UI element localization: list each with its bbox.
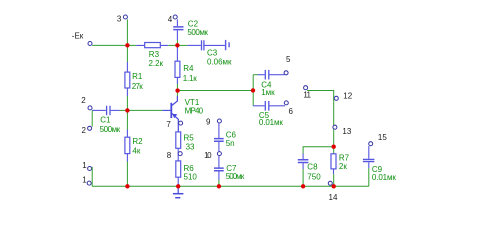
wire rail to C3: [177, 44, 187, 46]
svg-text:10: 10: [204, 151, 212, 160]
node 14: [328, 181, 338, 202]
svg-text:33: 33: [186, 142, 195, 151]
svg-text:4: 4: [168, 15, 173, 24]
svg-text:2к: 2к: [339, 162, 347, 171]
capacitor C8: [298, 154, 321, 182]
wire top rail left: [92, 44, 136, 46]
svg-text:11: 11: [303, 90, 311, 99]
svg-text:1: 1: [82, 176, 87, 185]
node 1 lower: [82, 176, 91, 186]
svg-text:R6: R6: [184, 164, 195, 173]
capacitor C5: [253, 101, 285, 127]
svg-text:500мк: 500мк: [187, 28, 208, 37]
svg-text:750: 750: [307, 172, 321, 181]
svg-text:5: 5: [286, 55, 291, 64]
svg-text:R4: R4: [183, 64, 194, 73]
junction J8: [301, 184, 305, 188]
svg-text:R2: R2: [132, 137, 143, 146]
svg-text:0.06мк: 0.06мк: [207, 57, 232, 66]
junction J4: [125, 184, 129, 188]
svg-text:3: 3: [117, 14, 122, 23]
wire C7 to bus: [218, 180, 220, 186]
transistor VT1: [162, 96, 203, 132]
capacitor C6: [214, 123, 236, 151]
capacitor C7: [214, 156, 245, 181]
wire node3 down column: [126, 19, 128, 62]
node 1 upper: [82, 161, 91, 171]
resistor R4: [175, 45, 197, 84]
wire node11 to R7 column: [307, 91, 334, 147]
junction J2: [175, 43, 179, 47]
svg-text:500мк: 500мк: [226, 172, 245, 181]
svg-text:15: 15: [378, 133, 387, 142]
svg-text:-Ек: -Ек: [72, 32, 84, 41]
svg-text:14: 14: [329, 193, 338, 202]
resistor R6: [176, 161, 198, 186]
wire C1 to base junction: [120, 109, 128, 111]
capacitor C9: [363, 146, 397, 182]
svg-text:R3: R3: [149, 50, 160, 59]
svg-text:R1: R1: [132, 72, 143, 81]
svg-text:7: 7: [166, 120, 171, 129]
capacitor C2: [173, 19, 208, 40]
svg-text:500мк: 500мк: [100, 125, 121, 134]
node 15: [369, 133, 388, 146]
wire R1 to base junction: [126, 96, 128, 130]
svg-text:1: 1: [82, 161, 87, 170]
wire base junction to transistor: [127, 109, 162, 111]
svg-text:5n: 5n: [226, 139, 235, 148]
node 2 lower: [82, 126, 92, 135]
svg-text:8: 8: [167, 151, 172, 160]
svg-text:1мк: 1мк: [261, 88, 275, 97]
capacitor C4: [258, 70, 285, 97]
node 13: [333, 125, 352, 136]
capacitor C1: [92, 106, 121, 134]
wire C9 to bus corner: [368, 168, 370, 186]
svg-text:C2: C2: [188, 19, 199, 28]
wire C2 to rail: [176, 40, 178, 45]
junction J5: [175, 88, 179, 92]
wire R7 to bus: [333, 174, 335, 186]
node 8: [167, 151, 182, 160]
wire C4/C5 bracket vertical: [252, 75, 254, 106]
svg-text:1.1к: 1.1к: [183, 74, 198, 83]
svg-text:R5: R5: [184, 133, 195, 142]
wire junction to C8: [303, 147, 334, 154]
svg-text:2: 2: [82, 126, 87, 135]
wire R3 to node4 junction: [168, 44, 177, 46]
svg-text:6: 6: [289, 107, 294, 116]
svg-text:9: 9: [206, 117, 211, 126]
resistor R5: [176, 132, 195, 161]
node -Ek terminal: [72, 32, 92, 46]
capacitor C3: [187, 40, 232, 66]
wire collector to junction: [176, 91, 178, 96]
node 4: [168, 15, 178, 24]
svg-text:510: 510: [184, 173, 198, 182]
svg-text:12: 12: [343, 92, 352, 101]
wire node1 drop: [91, 167, 93, 187]
svg-text:0.01мк: 0.01мк: [259, 118, 284, 127]
svg-text:C8: C8: [307, 162, 318, 171]
node 5: [284, 55, 291, 75]
svg-text:2: 2: [81, 96, 86, 105]
wire bracket top corner: [253, 74, 257, 76]
node 9: [206, 117, 221, 126]
node 12: [334, 92, 352, 101]
wire node2 drop: [91, 110, 93, 126]
output stub bars after C3: [226, 40, 230, 50]
wire R2 to bus: [126, 162, 128, 187]
svg-text:4к: 4к: [132, 147, 140, 156]
junction J6: [251, 88, 255, 92]
junction J9: [332, 184, 336, 188]
svg-text:2.2к: 2.2к: [149, 59, 164, 68]
wire collector junction to C4 bracket: [177, 90, 253, 92]
junction J7: [332, 145, 336, 149]
svg-text:МР40: МР40: [185, 107, 204, 116]
svg-text:13: 13: [342, 127, 351, 136]
node 7: [166, 120, 182, 129]
resistor R2: [125, 130, 143, 162]
node 6: [284, 101, 293, 116]
resistor R7: [331, 147, 350, 174]
svg-text:C1: C1: [100, 115, 111, 124]
resistor R3: [136, 43, 168, 68]
resistor R1: [125, 62, 143, 96]
junction Jg: [176, 184, 180, 188]
node 3: [117, 14, 128, 23]
wire ground bus: [92, 185, 369, 187]
wire C8 to bus: [302, 169, 304, 186]
node 11: [303, 86, 311, 100]
svg-text:VT1: VT1: [185, 98, 200, 107]
node 2 upper: [81, 96, 92, 110]
junction J10: [217, 184, 221, 188]
node 10: [204, 151, 221, 160]
svg-text:0.01мк: 0.01мк: [372, 173, 397, 182]
svg-text:27к: 27к: [132, 82, 144, 91]
wire R4 to collector junction: [176, 84, 178, 91]
junction J1: [125, 43, 129, 47]
svg-text:C3: C3: [207, 49, 218, 58]
junction J3: [125, 108, 129, 112]
ground: [173, 186, 184, 197]
